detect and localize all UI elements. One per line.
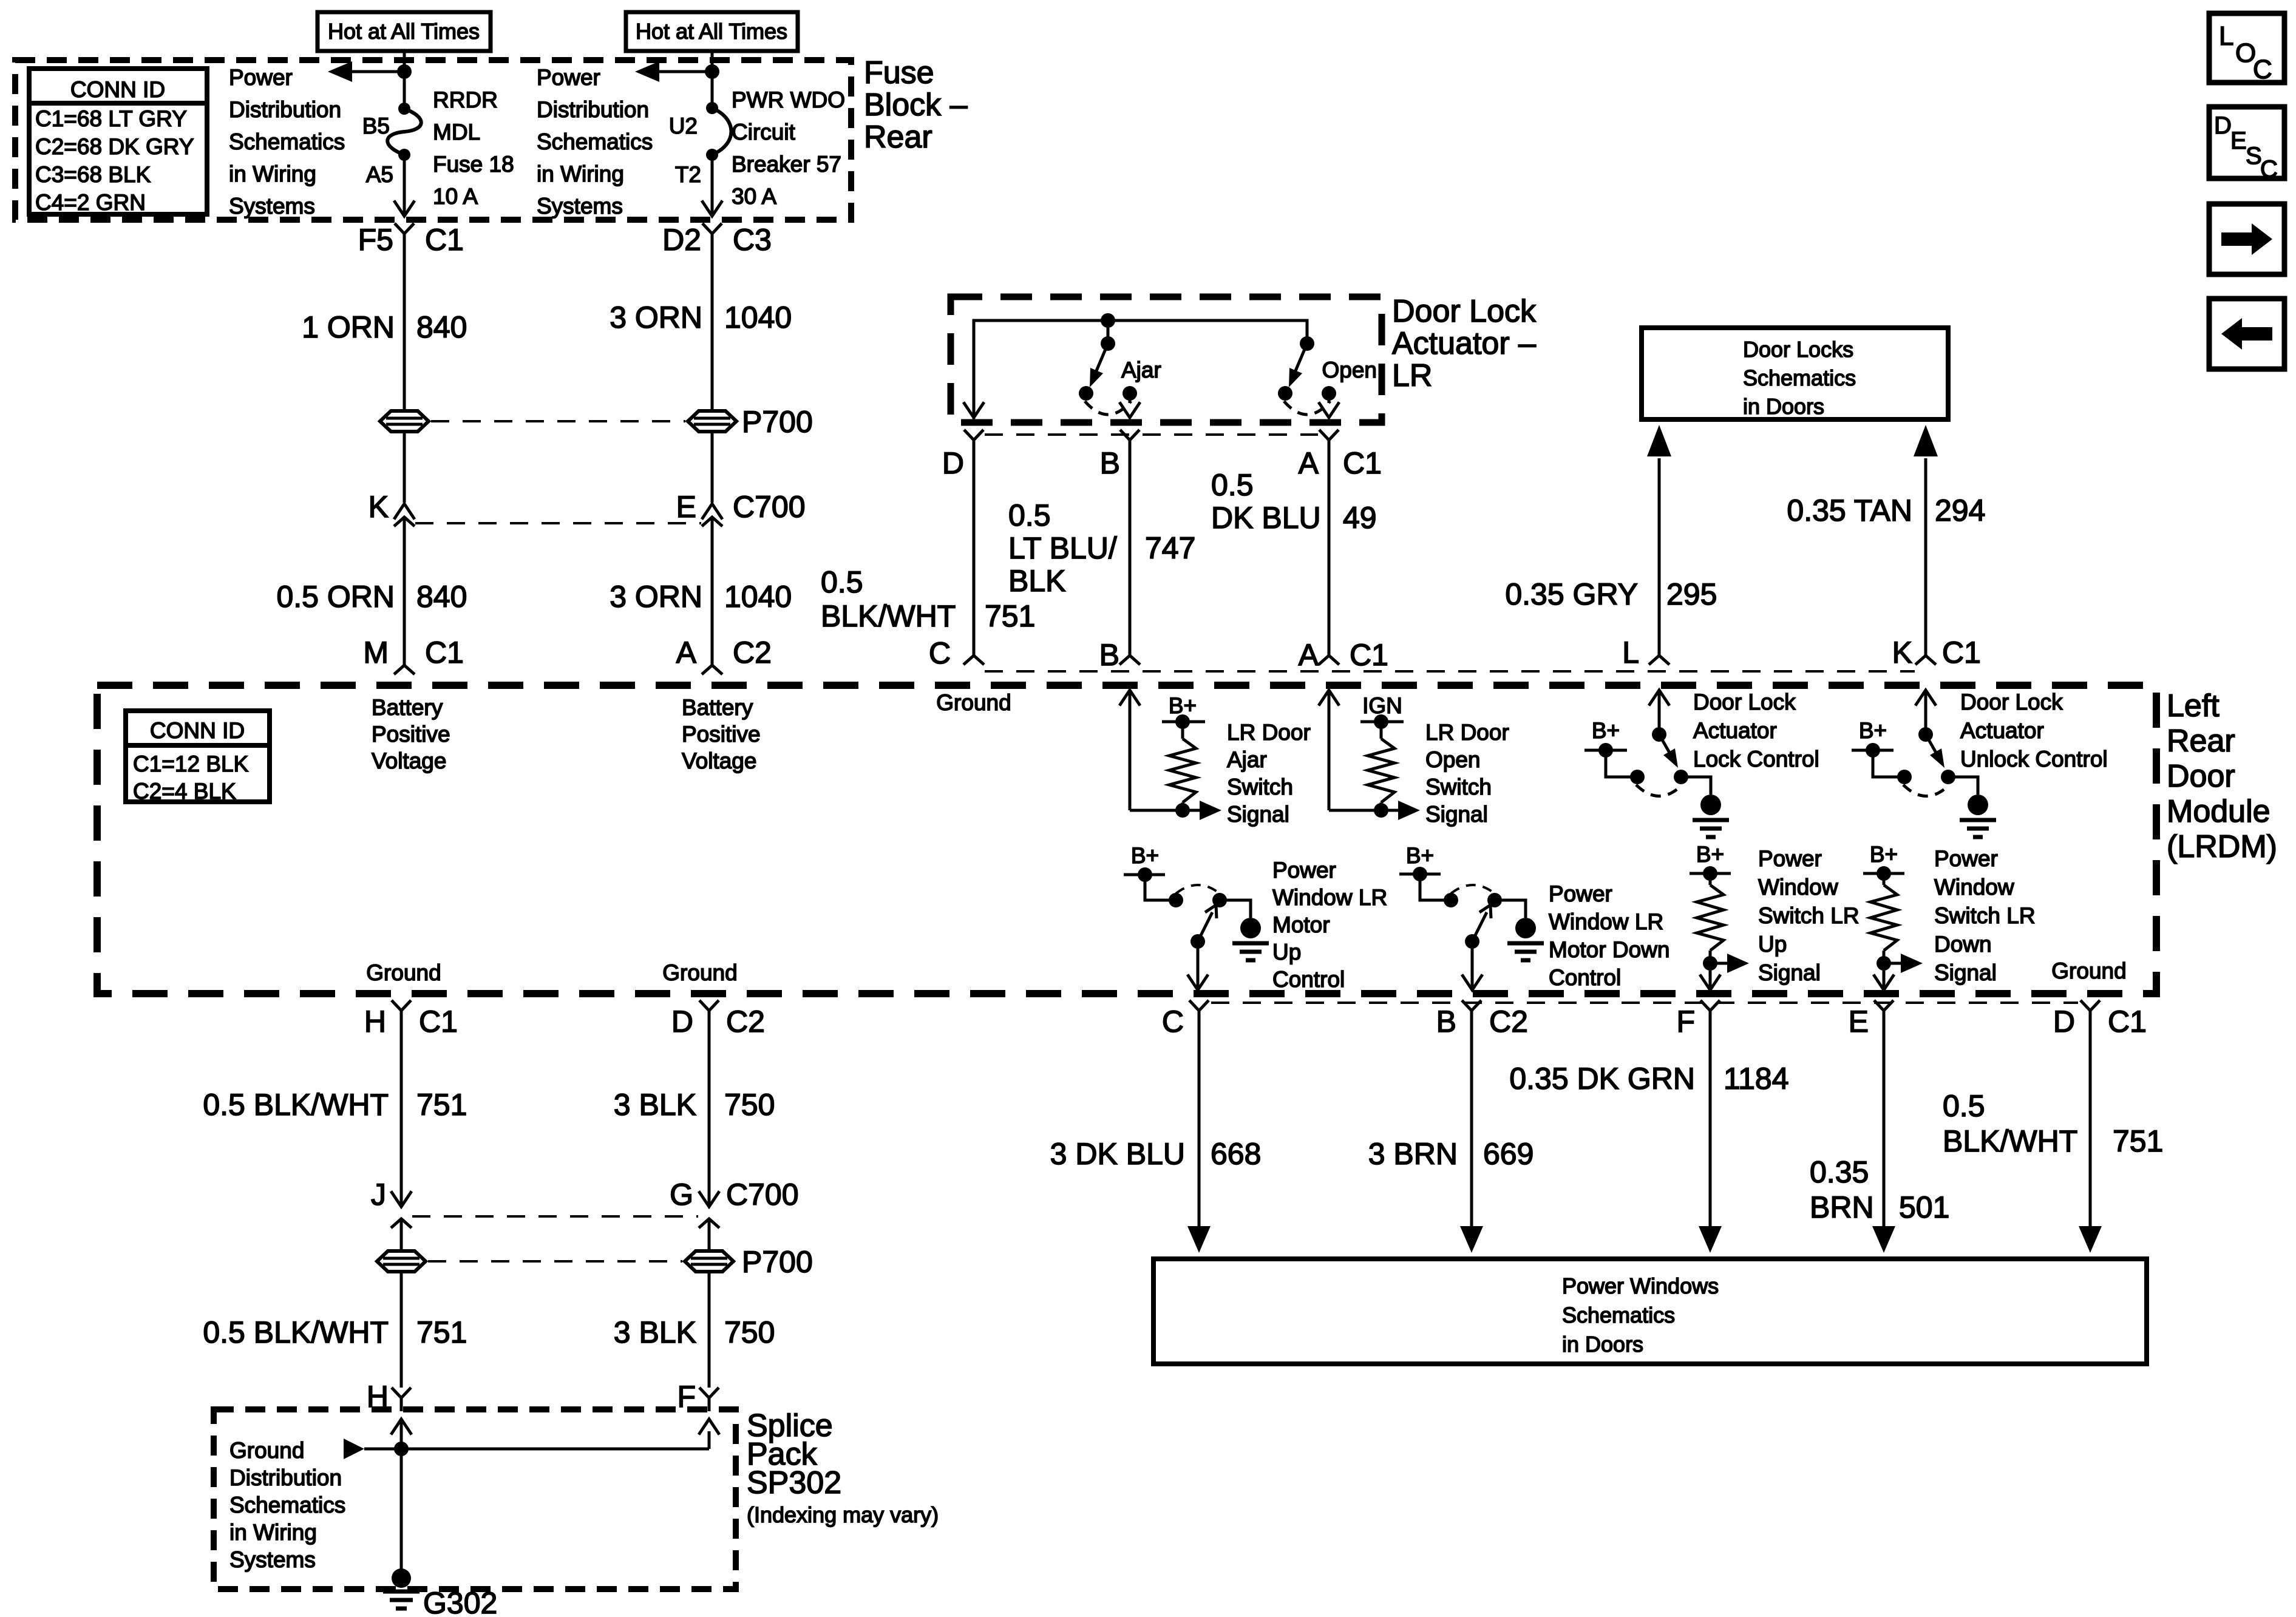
pin A5 label bbox=[366, 162, 393, 187]
svg-text:0.35 DK GRN: 0.35 DK GRN bbox=[1509, 1062, 1695, 1096]
connector C700 label (bottom) bbox=[726, 1178, 799, 1212]
svg-text:LR: LR bbox=[1392, 358, 1432, 393]
svg-text:F5: F5 bbox=[358, 223, 393, 257]
svg-text:C: C bbox=[1162, 1005, 1184, 1039]
svg-text:Power: Power bbox=[1934, 846, 1998, 871]
splice wire H arrow up bbox=[391, 1419, 412, 1449]
pin K label bbox=[369, 490, 389, 524]
svg-text:751: 751 bbox=[416, 1088, 467, 1122]
svg-text:Open: Open bbox=[1322, 358, 1377, 382]
label 'Door Lock Actuator Unlock Control' bbox=[1960, 690, 2108, 771]
actuator D wire arrow bbox=[963, 402, 984, 418]
pin G label (C700) bbox=[670, 1178, 693, 1212]
svg-text:Window: Window bbox=[1758, 875, 1838, 900]
wire label '3 DK BLU 668' bbox=[1050, 1137, 1262, 1171]
svg-text:PWR WDO: PWR WDO bbox=[732, 87, 845, 112]
svg-text:CONN ID: CONN ID bbox=[70, 77, 165, 102]
svg-text:C1=12 BLK: C1=12 BLK bbox=[133, 751, 249, 776]
label 'LR Door Open Switch Signal' bbox=[1425, 720, 1509, 827]
svg-text:1040: 1040 bbox=[724, 300, 792, 334]
connector C2 label (D) bbox=[726, 1005, 765, 1039]
connector C1 label (F5) bbox=[425, 223, 464, 257]
svg-text:Systems: Systems bbox=[229, 194, 315, 219]
grommet P700 (left half, bottom) bbox=[377, 1251, 426, 1272]
svg-text:Actuator –: Actuator – bbox=[1392, 326, 1536, 361]
pin T2 label bbox=[675, 162, 701, 187]
svg-text:Systems: Systems bbox=[229, 1547, 316, 1572]
module wire from pin B with up arrow bbox=[1119, 690, 1183, 810]
svg-text:BLK/WHT: BLK/WHT bbox=[1943, 1124, 2077, 1158]
window down wire to pin E bbox=[1873, 963, 1894, 990]
svg-text:(Indexing may vary): (Indexing may vary) bbox=[747, 1502, 939, 1527]
B+ feed (window switch up) bbox=[1690, 842, 1731, 885]
svg-text:D: D bbox=[2053, 1005, 2075, 1039]
svg-text:3 ORN: 3 ORN bbox=[610, 580, 702, 614]
actuator internal bus wire bbox=[974, 313, 1307, 419]
pin H label (splice) bbox=[367, 1380, 389, 1414]
svg-text:B: B bbox=[1100, 446, 1120, 480]
svg-text:S: S bbox=[2246, 143, 2262, 169]
grommet P700 (left half, top) bbox=[380, 411, 429, 432]
bottom connector dashed link bbox=[1211, 1002, 2078, 1004]
ground (unlock control) bbox=[1948, 777, 1996, 837]
wire F (0.35 DK GRN 1184) to power windows box bbox=[1699, 1011, 1722, 1253]
connector C700 label bbox=[733, 490, 806, 524]
pin H label bbox=[364, 1005, 386, 1039]
pin A label bbox=[676, 636, 697, 670]
svg-text:G302: G302 bbox=[423, 1586, 497, 1617]
svg-text:Switch LR: Switch LR bbox=[1934, 903, 2036, 928]
svg-text:Ground: Ground bbox=[662, 960, 737, 985]
back arrow nav box bbox=[2209, 299, 2284, 369]
svg-text:LT BLU/: LT BLU/ bbox=[1008, 531, 1117, 565]
wire label '0.5 ORN 840' bbox=[276, 580, 467, 614]
svg-text:D2: D2 bbox=[662, 223, 701, 257]
svg-text:Distribution: Distribution bbox=[229, 97, 341, 122]
svg-text:C: C bbox=[2253, 55, 2272, 84]
note 'Power Distribution Schematics in Wiring Systems' (right) bbox=[537, 65, 653, 219]
svg-text:Ground: Ground bbox=[366, 960, 441, 985]
pin D label (bottom right) bbox=[2053, 1005, 2075, 1039]
module pin B chevron bbox=[1119, 656, 1140, 665]
wire label '0.5 BLK/WHT 751' (upper) bbox=[203, 1088, 467, 1122]
svg-text:C1: C1 bbox=[2108, 1005, 2147, 1039]
svg-text:BRN: BRN bbox=[1810, 1190, 1874, 1224]
connector C1 label (H) bbox=[419, 1005, 458, 1039]
wire label '0.35 GRY 295' bbox=[1505, 577, 1717, 611]
connector C700 J arrow+chevron bbox=[391, 1179, 412, 1251]
pin C label (bottom) bbox=[1162, 1005, 1184, 1039]
svg-text:LR Door: LR Door bbox=[1425, 720, 1509, 745]
svg-text:Window: Window bbox=[1934, 875, 2014, 900]
wire breaker T2 down to fuse block edge with arrow bbox=[702, 155, 722, 216]
svg-text:T2: T2 bbox=[675, 162, 701, 187]
P700 label (bottom) bbox=[742, 1245, 813, 1279]
svg-text:B: B bbox=[1099, 638, 1119, 672]
connector C700 K chevrons bbox=[394, 504, 415, 665]
B+ feed (motor down) bbox=[1399, 843, 1451, 900]
svg-text:0.5: 0.5 bbox=[1008, 498, 1051, 532]
LOC nav box bbox=[2209, 13, 2284, 84]
fuse F18 'RRDR MDL Fuse 18 10 A' bbox=[387, 103, 421, 161]
connector C1 label (D bottom) bbox=[2108, 1005, 2147, 1039]
label 'Ground' (pin D bottom) bbox=[662, 960, 737, 985]
svg-text:Circuit: Circuit bbox=[732, 120, 796, 144]
pin F5 label bbox=[358, 223, 393, 257]
resistor (LR door open switch) bbox=[1368, 739, 1394, 818]
svg-text:Signal: Signal bbox=[1227, 802, 1289, 827]
door lock actuator - LR dashed outline bbox=[951, 297, 1382, 422]
svg-text:Voltage: Voltage bbox=[682, 748, 756, 773]
wire E (0.35 BRN 501) to power windows box bbox=[1872, 1011, 1895, 1253]
signal arrow (window up) bbox=[1710, 954, 1749, 973]
svg-text:Ajar: Ajar bbox=[1121, 358, 1161, 382]
module pin M chevron bbox=[394, 665, 415, 674]
pin D label (bottom) bbox=[671, 1005, 693, 1039]
svg-text:0.35: 0.35 bbox=[1810, 1155, 1869, 1189]
module wire from pin L with up arrow bbox=[1649, 690, 1669, 734]
wire label '0.35 BRN 501' bbox=[1810, 1155, 1949, 1224]
svg-text:D: D bbox=[2214, 112, 2232, 139]
wire label '0.5 BLK/WHT 751' (lower) bbox=[203, 1315, 467, 1349]
svg-text:C1=68 LT GRY: C1=68 LT GRY bbox=[35, 106, 187, 131]
B+ feed (window switch down) bbox=[1863, 842, 1904, 885]
svg-text:Positive: Positive bbox=[372, 722, 450, 747]
svg-text:Fuse 18: Fuse 18 bbox=[433, 152, 514, 177]
label 'Open' bbox=[1322, 358, 1377, 382]
wire D (0.5 BLK/WHT 751) to power windows box bbox=[2079, 1011, 2102, 1253]
pin D label (actuator) bbox=[942, 446, 964, 480]
label 'LR Door Ajar Switch Signal' bbox=[1227, 720, 1311, 827]
svg-text:IGN: IGN bbox=[1362, 693, 1402, 718]
svg-text:1 ORN: 1 ORN bbox=[302, 310, 395, 344]
grommet P700 (right half, top) bbox=[688, 411, 736, 432]
svg-text:Actuator: Actuator bbox=[1693, 718, 1777, 743]
label 'Ground' (pin D/C1 right) bbox=[2051, 958, 2126, 983]
P700 dashed link (top) bbox=[431, 420, 685, 422]
svg-text:Block –: Block – bbox=[864, 87, 968, 123]
connector C2 label (A) bbox=[733, 636, 772, 670]
svg-text:Door Lock: Door Lock bbox=[1392, 294, 1537, 329]
svg-text:Ground: Ground bbox=[936, 690, 1011, 715]
svg-text:Power: Power bbox=[1272, 858, 1336, 883]
pin E label (bottom) bbox=[1849, 1005, 1869, 1039]
wire P700 to F (bottom right) bbox=[708, 1272, 711, 1388]
C700 dashed link (top) bbox=[415, 522, 701, 524]
svg-text:K: K bbox=[1892, 636, 1912, 670]
svg-text:BLK/WHT: BLK/WHT bbox=[821, 599, 956, 633]
svg-text:C2=4 BLK: C2=4 BLK bbox=[133, 779, 236, 804]
wire label '0.5 LT BLU/BLK 747' bbox=[1008, 498, 1195, 598]
pin J label bbox=[371, 1178, 386, 1212]
svg-text:Rear: Rear bbox=[864, 120, 932, 155]
svg-text:B+: B+ bbox=[1870, 842, 1898, 867]
pin U2 label bbox=[669, 114, 698, 138]
svg-text:Window LR: Window LR bbox=[1549, 909, 1663, 934]
svg-text:3 BLK: 3 BLK bbox=[614, 1315, 696, 1349]
switch (motor up control) bbox=[1169, 885, 1227, 949]
svg-text:in Doors: in Doors bbox=[1562, 1332, 1643, 1357]
B+ feed (ajar resistor) bbox=[1162, 693, 1205, 739]
splice pack pin H chevron bbox=[392, 1388, 411, 1411]
connector C1 label (actuator) bbox=[1343, 446, 1382, 480]
svg-text:3 BRN: 3 BRN bbox=[1368, 1137, 1458, 1171]
pin B label (module top) bbox=[1099, 638, 1119, 672]
svg-text:Distribution: Distribution bbox=[537, 97, 649, 122]
svg-text:Power: Power bbox=[1549, 881, 1612, 906]
label box 'Hot at All Times' (right) bbox=[626, 12, 798, 51]
module pin H chevron bbox=[392, 1000, 411, 1179]
pin M label bbox=[363, 636, 389, 670]
svg-text:Door Locks: Door Locks bbox=[1743, 337, 1853, 362]
switch 'Open' (door open) bbox=[1278, 336, 1336, 415]
svg-text:C2=68 DK GRY: C2=68 DK GRY bbox=[35, 134, 194, 159]
label 'Battery Positive Voltage' (A) bbox=[682, 695, 761, 773]
svg-text:LR Door: LR Door bbox=[1227, 720, 1311, 745]
svg-text:B+: B+ bbox=[1131, 843, 1159, 868]
pin K label bbox=[1892, 636, 1912, 670]
svg-text:501: 501 bbox=[1899, 1190, 1949, 1224]
svg-text:SP302: SP302 bbox=[747, 1465, 841, 1500]
svg-text:C2: C2 bbox=[726, 1005, 765, 1039]
svg-text:750: 750 bbox=[724, 1315, 775, 1349]
module pin F chevron (bottom) bbox=[1700, 1000, 1720, 1011]
svg-text:C3=68 BLK: C3=68 BLK bbox=[35, 162, 151, 187]
ground (motor up) bbox=[1220, 900, 1269, 960]
svg-text:Breaker 57: Breaker 57 bbox=[732, 152, 841, 177]
connector C700 E chevrons bbox=[702, 504, 722, 665]
svg-text:C1: C1 bbox=[1343, 446, 1382, 480]
svg-text:Lock Control: Lock Control bbox=[1693, 747, 1819, 771]
grommet P700 (right half, bottom) bbox=[685, 1251, 733, 1272]
svg-text:840: 840 bbox=[416, 580, 467, 614]
svg-text:Up: Up bbox=[1758, 932, 1787, 957]
svg-text:C1: C1 bbox=[419, 1005, 458, 1039]
pin A label (module top) bbox=[1299, 638, 1319, 672]
pin C label (module top) bbox=[929, 636, 951, 670]
arrow to power distribution schematics (left) bbox=[328, 61, 404, 82]
pin D2 label bbox=[662, 223, 701, 257]
svg-text:Battery: Battery bbox=[372, 695, 443, 720]
label 'Ground' (pin C) bbox=[936, 690, 1011, 715]
signal arrow (ajar) bbox=[1183, 801, 1221, 820]
label 'Battery Positive Voltage' (M) bbox=[372, 695, 450, 773]
svg-text:B+: B+ bbox=[1406, 843, 1434, 868]
svg-text:747: 747 bbox=[1145, 531, 1195, 565]
pin B label (actuator) bbox=[1100, 446, 1120, 480]
svg-text:U2: U2 bbox=[669, 114, 698, 138]
B+ feed (motor up) bbox=[1124, 843, 1176, 900]
svg-text:0.5 ORN: 0.5 ORN bbox=[276, 580, 395, 614]
connector D2 C3 chevron bbox=[702, 223, 722, 411]
svg-text:M: M bbox=[363, 636, 389, 670]
ground (motor down) bbox=[1495, 900, 1544, 960]
svg-text:Door Lock: Door Lock bbox=[1693, 690, 1796, 714]
svg-text:10 A: 10 A bbox=[433, 184, 478, 209]
svg-text:669: 669 bbox=[1483, 1137, 1533, 1171]
svg-text:B5: B5 bbox=[362, 114, 390, 138]
svg-text:C3: C3 bbox=[733, 223, 772, 257]
svg-text:0.5: 0.5 bbox=[1943, 1089, 1985, 1123]
svg-text:A: A bbox=[1299, 638, 1319, 672]
pin B5 label bbox=[362, 114, 390, 138]
svg-text:295: 295 bbox=[1666, 577, 1717, 611]
label 'Door Lock Actuator Lock Control' bbox=[1693, 690, 1819, 771]
svg-text:30 A: 30 A bbox=[732, 184, 776, 209]
arrow to power distribution schematics (right) bbox=[635, 61, 712, 82]
svg-text:Schematics: Schematics bbox=[229, 1493, 345, 1517]
svg-text:P700: P700 bbox=[742, 1245, 813, 1279]
svg-text:K: K bbox=[369, 490, 389, 524]
svg-text:Module: Module bbox=[2167, 794, 2271, 829]
connector C2 label (B) bbox=[1489, 1005, 1528, 1039]
switch (motor down control) bbox=[1444, 885, 1502, 949]
svg-text:Ground: Ground bbox=[2051, 958, 2126, 983]
module pin A chevron bbox=[702, 665, 722, 674]
label 'Ajar' bbox=[1121, 358, 1161, 382]
P700 dashed link (bottom) bbox=[428, 1260, 682, 1263]
svg-text:BLK: BLK bbox=[1008, 564, 1066, 598]
svg-text:in Wiring: in Wiring bbox=[537, 161, 624, 186]
svg-text:B+: B+ bbox=[1592, 718, 1620, 743]
wire label '0.5 BLK/WHT 751' (to C) bbox=[821, 565, 1035, 633]
svg-text:Schematics: Schematics bbox=[1562, 1303, 1675, 1327]
connector C1 label (K) bbox=[1942, 636, 1981, 670]
svg-text:1184: 1184 bbox=[1724, 1062, 1789, 1096]
forward arrow nav box bbox=[2209, 204, 2284, 274]
svg-text:C700: C700 bbox=[726, 1178, 799, 1212]
svg-text:Schematics: Schematics bbox=[1743, 365, 1856, 390]
door lock actuator title bbox=[1392, 294, 1537, 393]
svg-text:C4=2 GRN: C4=2 GRN bbox=[35, 190, 146, 215]
window up wire to pin F bbox=[1700, 963, 1720, 990]
splice pack pin F chevron bbox=[699, 1388, 719, 1411]
svg-text:J: J bbox=[371, 1178, 386, 1212]
circuit breaker text bbox=[732, 87, 845, 209]
svg-text:in Wiring: in Wiring bbox=[229, 161, 316, 186]
pin F label (splice) bbox=[677, 1380, 696, 1414]
module wire from pin K with up arrow bbox=[1915, 690, 1936, 734]
fuse 18 value text bbox=[433, 87, 514, 209]
module pin L chevron bbox=[1649, 656, 1669, 665]
svg-text:Ground: Ground bbox=[229, 1438, 304, 1463]
motor down wire to pin B bbox=[1462, 941, 1483, 990]
wire label '3 BLK 750' (upper) bbox=[614, 1088, 775, 1122]
C700 dashed link (bottom) bbox=[412, 1215, 698, 1218]
pin F label (bottom) bbox=[1676, 1005, 1695, 1039]
svg-text:Battery: Battery bbox=[682, 695, 753, 720]
svg-text:Power: Power bbox=[537, 65, 600, 90]
signal arrow (window down) bbox=[1884, 954, 1923, 973]
wire from Hot at All Times (left) to fuse B5 bbox=[397, 51, 412, 109]
svg-text:P700: P700 bbox=[742, 405, 813, 439]
svg-text:0.5 BLK/WHT: 0.5 BLK/WHT bbox=[203, 1088, 389, 1122]
connector C1 label (module top) bbox=[1350, 638, 1388, 672]
svg-text:Unlock Control: Unlock Control bbox=[1960, 747, 2108, 771]
svg-text:A: A bbox=[676, 636, 697, 670]
wire label '0.35 TAN 294' bbox=[1787, 493, 1985, 527]
B+ feed (unlock control) bbox=[1852, 718, 1904, 777]
left rear door module (LRDM) dashed outline bbox=[97, 685, 2156, 994]
svg-text:B+: B+ bbox=[1696, 842, 1724, 867]
svg-text:A: A bbox=[1299, 446, 1319, 480]
svg-text:751: 751 bbox=[985, 599, 1035, 633]
svg-text:C700: C700 bbox=[733, 490, 806, 524]
svg-text:294: 294 bbox=[1935, 493, 1985, 527]
reference box 'Door Locks Schematics in Doors' bbox=[1642, 328, 1948, 419]
connector F5 C1 chevron bbox=[395, 223, 414, 411]
svg-text:Switch LR: Switch LR bbox=[1758, 903, 1860, 928]
splice pack SP302 dashed outline bbox=[214, 1409, 736, 1589]
svg-text:Left: Left bbox=[2167, 688, 2220, 724]
module pin C chevron (bottom) bbox=[1189, 1000, 1209, 1011]
wire label '3 BLK 750' (lower) bbox=[614, 1315, 775, 1349]
svg-text:Control: Control bbox=[1272, 967, 1345, 992]
switch 'Ajar' (door ajar) bbox=[1079, 336, 1137, 415]
svg-text:H: H bbox=[364, 1005, 386, 1039]
svg-text:E: E bbox=[2230, 127, 2247, 154]
B+ feed (lock control) bbox=[1584, 718, 1637, 777]
svg-text:Distribution: Distribution bbox=[229, 1465, 342, 1490]
label box 'Hot at All Times' (left) bbox=[318, 12, 491, 51]
svg-text:A5: A5 bbox=[366, 162, 393, 187]
svg-text:D: D bbox=[942, 446, 964, 480]
module title 'Left Rear Door Module (LRDM)' bbox=[2167, 688, 2277, 864]
svg-text:CONN ID: CONN ID bbox=[150, 718, 245, 743]
wire label '3 BRN 669' bbox=[1368, 1137, 1534, 1171]
svg-text:0.5 BLK/WHT: 0.5 BLK/WHT bbox=[203, 1315, 389, 1349]
label G302 bbox=[423, 1586, 497, 1617]
actuator connector chevron A bbox=[1319, 430, 1339, 656]
svg-text:D: D bbox=[671, 1005, 693, 1039]
svg-text:Door Lock: Door Lock bbox=[1960, 690, 2063, 714]
IGN feed (open resistor) bbox=[1360, 693, 1404, 739]
svg-text:E: E bbox=[676, 490, 696, 524]
svg-text:Ajar: Ajar bbox=[1227, 747, 1267, 772]
svg-text:Schematics: Schematics bbox=[537, 129, 653, 154]
svg-text:E: E bbox=[1849, 1005, 1869, 1039]
wire label '3 ORN 1040' bbox=[610, 300, 792, 334]
wire B (3 BRN 669) to power windows box bbox=[1460, 1011, 1483, 1253]
wire K to door locks box with arrow bbox=[1914, 425, 1938, 656]
module pin E chevron (bottom) bbox=[1874, 1000, 1894, 1011]
svg-text:Power Windows: Power Windows bbox=[1562, 1273, 1719, 1298]
wire fuse A5 down to fuse block edge with arrow bbox=[394, 155, 415, 216]
CONN ID table (module) bbox=[126, 711, 270, 804]
connector C3 label bbox=[733, 223, 772, 257]
actuator connector chevron B bbox=[1120, 430, 1140, 656]
svg-text:in Doors: in Doors bbox=[1743, 394, 1824, 419]
svg-text:DK BLU: DK BLU bbox=[1211, 501, 1321, 535]
svg-text:C: C bbox=[929, 636, 951, 670]
svg-text:Motor: Motor bbox=[1272, 912, 1330, 937]
ground (lock control) bbox=[1681, 777, 1729, 837]
wire label '0.35 DK GRN 1184' bbox=[1509, 1062, 1788, 1096]
svg-text:Door: Door bbox=[2167, 759, 2235, 794]
pin L label bbox=[1622, 636, 1639, 670]
resistor (window switch down) bbox=[1870, 885, 1897, 971]
splice bus wire with arrow to ground distribution bbox=[344, 1419, 719, 1459]
svg-text:B+: B+ bbox=[1859, 718, 1887, 743]
svg-text:751: 751 bbox=[2113, 1124, 2163, 1158]
fuse block title 'Fuse Block - Rear' bbox=[864, 55, 968, 155]
resistor (window switch up) bbox=[1697, 885, 1724, 971]
svg-text:Down: Down bbox=[1934, 932, 1992, 957]
svg-text:F: F bbox=[1676, 1005, 1695, 1039]
label 'Power Window LR Motor Up Control' bbox=[1272, 858, 1387, 992]
svg-text:0.5: 0.5 bbox=[1211, 468, 1254, 502]
module pin K chevron bbox=[1915, 656, 1936, 665]
